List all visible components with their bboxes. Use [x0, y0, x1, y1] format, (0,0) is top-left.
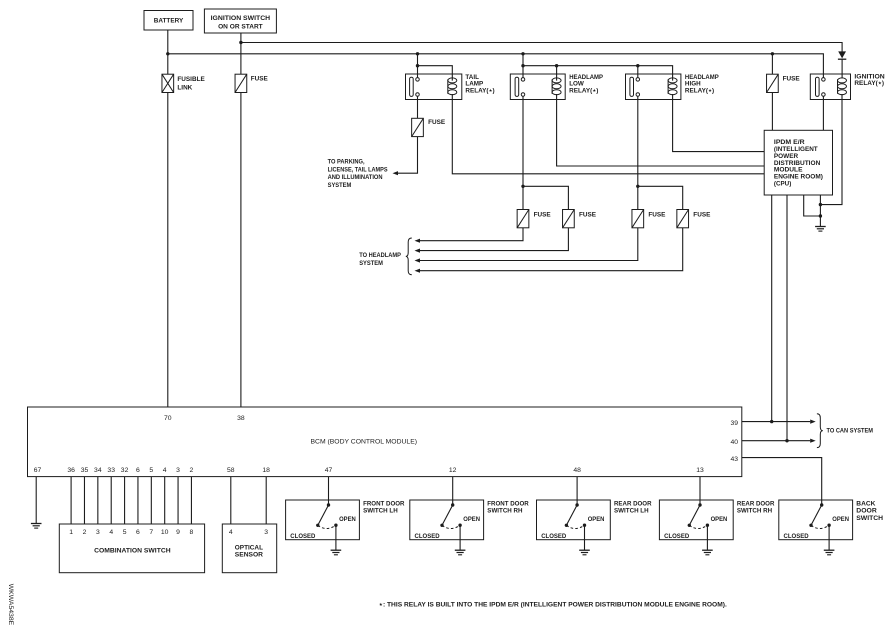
- svg-text:67: 67: [34, 467, 42, 474]
- svg-text:70: 70: [164, 415, 172, 422]
- fuse headlamp 1: [517, 210, 551, 228]
- BCM body control module box: [28, 407, 742, 477]
- pin 18 wire to optical sensor: [262, 467, 270, 536]
- wire tail relay coil feed: [418, 66, 453, 81]
- svg-text:36: 36: [67, 467, 75, 474]
- wire IPDM CAN L: [770, 195, 773, 423]
- door switch rear door switch LH: [537, 500, 652, 550]
- svg-text:BATTERY: BATTERY: [154, 18, 184, 25]
- wire ignition relay coil down: [820, 94, 842, 205]
- svg-text:9: 9: [176, 529, 180, 536]
- ground rear door switch LH: [579, 550, 590, 555]
- svg-text:38: 38: [237, 415, 245, 422]
- door switch back door switch: [779, 500, 884, 550]
- label to CAN system: [827, 428, 874, 435]
- svg-text:3: 3: [176, 467, 180, 474]
- svg-text:58: 58: [227, 467, 235, 474]
- svg-text:8: 8: [190, 529, 194, 536]
- svg-text:ON OR START: ON OR START: [218, 23, 263, 30]
- ground rear door switch RH: [702, 550, 713, 555]
- fuse (ignition feed): [235, 74, 268, 92]
- svg-text:CLOSED: CLOSED: [784, 533, 810, 540]
- svg-text:OPEN: OPEN: [832, 516, 849, 523]
- label to parking: [328, 159, 389, 189]
- label to headlamp system: [359, 252, 401, 267]
- svg-text:7: 7: [149, 529, 153, 536]
- svg-text:3: 3: [96, 529, 100, 536]
- wire ignition rail: [239, 41, 842, 52]
- svg-text:OPEN: OPEN: [463, 516, 480, 523]
- svg-text:IGNITION SWITCH: IGNITION SWITCH: [211, 15, 271, 22]
- wire headlamp high contact out: [636, 96, 639, 210]
- svg-text:SWITCH LH: SWITCH LH: [363, 508, 398, 515]
- svg-text:OPEN: OPEN: [711, 516, 728, 523]
- pin 36 wire to combination switch: [67, 467, 75, 536]
- svg-text:OPTICAL: OPTICAL: [235, 544, 263, 551]
- fuse headlamp 3: [632, 210, 666, 228]
- note relay built into IPDM: [379, 602, 727, 609]
- svg-text:FUSE: FUSE: [251, 76, 269, 83]
- svg-text:39: 39: [730, 420, 738, 427]
- svg-text:CLOSED: CLOSED: [541, 533, 567, 540]
- wire IPDM CAN H: [785, 195, 788, 442]
- brace CAN: [817, 414, 823, 448]
- pin 12 wire: [449, 467, 457, 505]
- relay tail lamp: [406, 74, 495, 100]
- svg-text:COMBINATION SWITCH: COMBINATION SWITCH: [94, 547, 171, 554]
- pin 40: [730, 439, 815, 447]
- svg-text:4: 4: [229, 529, 233, 536]
- wire fusible link to BCM pin 70: [167, 93, 169, 408]
- pin 5 wire to combination switch: [149, 467, 153, 536]
- wire ignition drop: [240, 33, 242, 74]
- ground front door switch RH: [455, 550, 466, 555]
- svg-text:5: 5: [149, 467, 153, 474]
- svg-text:2: 2: [190, 467, 194, 474]
- wire headlamp low contact out: [521, 96, 524, 210]
- svg-text:BCM (BODY CONTROL MODULE): BCM (BODY CONTROL MODULE): [311, 438, 418, 445]
- pin 3 wire to combination switch: [176, 467, 180, 536]
- svg-text:DOOR: DOOR: [856, 508, 877, 515]
- wire tail contact to fuse: [417, 96, 419, 118]
- diagram id WKWA5438E: [7, 584, 14, 626]
- svg-text:FUSE: FUSE: [693, 211, 711, 218]
- svg-text:LICENSE, TAIL LAMPS: LICENSE, TAIL LAMPS: [328, 166, 389, 173]
- wire battery rail: [166, 52, 823, 78]
- svg-text:FUSE: FUSE: [783, 76, 801, 83]
- svg-text:SENSOR: SENSOR: [235, 552, 264, 559]
- svg-text:33: 33: [107, 467, 115, 474]
- pin 35 wire to combination switch: [81, 467, 89, 536]
- pin 34 wire to combination switch: [94, 467, 102, 536]
- pin 33 wire to combination switch: [107, 467, 115, 536]
- wire fuse to BCM pin 38: [240, 93, 242, 408]
- svg-text:1: 1: [69, 529, 73, 536]
- fuse headlamp 2: [563, 210, 597, 228]
- svg-text:TO PARKING,: TO PARKING,: [328, 159, 365, 166]
- svg-text:FUSE: FUSE: [579, 211, 597, 218]
- svg-text:13: 13: [696, 467, 704, 474]
- svg-text:SWITCH: SWITCH: [856, 515, 883, 522]
- svg-text:CLOSED: CLOSED: [415, 533, 441, 540]
- node battery rail junctions: [416, 52, 774, 55]
- svg-text:(CPU): (CPU): [774, 180, 791, 187]
- svg-text:SWITCH LH: SWITCH LH: [614, 508, 649, 515]
- svg-text:FUSIBLE: FUSIBLE: [177, 76, 205, 83]
- svg-text:6: 6: [136, 467, 140, 474]
- combination switch box: [59, 524, 204, 573]
- svg-text:TO HEADLAMP: TO HEADLAMP: [359, 252, 401, 259]
- svg-text:CLOSED: CLOSED: [664, 533, 690, 540]
- svg-text:TO CAN SYSTEM: TO CAN SYSTEM: [827, 428, 874, 435]
- fusible link F/L: [162, 74, 206, 92]
- brace headlamp system: [406, 238, 412, 275]
- fuse (tail lamp out): [412, 118, 446, 136]
- relay ignition: [810, 73, 885, 99]
- door switch front door switch RH: [410, 500, 529, 550]
- svg-text:FRONT DOOR: FRONT DOOR: [487, 501, 529, 508]
- svg-text:LINK: LINK: [177, 85, 192, 92]
- wire headlamp arrow 3: [415, 228, 638, 263]
- ground BCM pin 67: [31, 524, 42, 529]
- svg-text:FRONT DOOR: FRONT DOOR: [363, 501, 405, 508]
- wire headlamp sub rail: [523, 64, 673, 81]
- svg-text:BACK: BACK: [856, 501, 876, 508]
- svg-text:SWITCH RH: SWITCH RH: [737, 508, 773, 515]
- wire branch to fuse2: [523, 186, 568, 209]
- IPDM E/R box: [764, 130, 832, 195]
- pin 48 wire: [573, 467, 581, 505]
- pin 47 wire: [325, 467, 333, 505]
- svg-text:OPEN: OPEN: [339, 516, 356, 523]
- svg-text:43: 43: [730, 456, 738, 463]
- svg-text:FUSE: FUSE: [648, 211, 666, 218]
- pin 2 wire to combination switch: [190, 467, 194, 536]
- wire headlamp high coil to IPDM: [673, 94, 765, 152]
- svg-text:RELAY(⋆): RELAY(⋆): [465, 87, 494, 94]
- svg-text:REAR DOOR: REAR DOOR: [737, 501, 775, 508]
- svg-text:5: 5: [123, 529, 127, 536]
- ground back door switch: [824, 550, 835, 555]
- svg-text:6: 6: [136, 529, 140, 536]
- wire battery drop: [167, 30, 169, 74]
- door switch rear door switch RH: [659, 500, 774, 550]
- ground front door switch LH: [331, 550, 342, 555]
- pin 4 wire to combination switch: [161, 467, 169, 536]
- svg-text:34: 34: [94, 467, 102, 474]
- pin 13 wire: [696, 467, 704, 505]
- pin 39: [730, 420, 815, 428]
- pin 43 to back door: [730, 456, 821, 505]
- svg-text:12: 12: [449, 467, 457, 474]
- svg-text:SYSTEM: SYSTEM: [359, 260, 383, 267]
- door switch front door switch LH: [286, 500, 405, 550]
- svg-text:SYSTEM: SYSTEM: [328, 182, 352, 189]
- wire IPDM ground a: [804, 195, 821, 216]
- svg-text:OPEN: OPEN: [588, 516, 605, 523]
- fuse (IPDM feed): [767, 74, 801, 92]
- svg-text:40: 40: [730, 439, 738, 446]
- wire headlamp low coil to IPDM: [557, 94, 765, 166]
- wire headlamp arrow 4: [415, 228, 683, 273]
- svg-text:47: 47: [325, 467, 333, 474]
- svg-text:18: 18: [262, 467, 270, 474]
- wire headlamp arrow 1: [415, 228, 524, 243]
- wire headlamp arrow 2: [415, 228, 569, 253]
- battery box: [144, 11, 193, 31]
- svg-text:32: 32: [121, 467, 129, 474]
- ignition switch box: [204, 9, 276, 33]
- pin 6 wire to combination switch: [136, 467, 140, 536]
- pin 38 label: [237, 415, 245, 422]
- optical sensor box: [222, 524, 276, 573]
- svg-text:3: 3: [264, 529, 268, 536]
- svg-text:⋆: THIS RELAY IS BUILT INTO TH: ⋆: THIS RELAY IS BUILT INTO THE IPDM E/R…: [379, 602, 727, 609]
- relay headlamp low: [510, 74, 603, 100]
- wire IPDM ground b: [819, 195, 822, 227]
- svg-text:4: 4: [109, 529, 113, 536]
- pin 70 label: [164, 415, 172, 422]
- svg-text:REAR DOOR: REAR DOOR: [614, 501, 652, 508]
- svg-text:CLOSED: CLOSED: [290, 533, 316, 540]
- svg-text:RELAY(⋆): RELAY(⋆): [854, 80, 884, 87]
- wire fuse to IPDM top: [771, 54, 773, 131]
- ground IPDM: [815, 227, 826, 232]
- diode D1: [838, 51, 846, 78]
- wire tail coil to IPDM: [452, 94, 764, 174]
- svg-text:RELAY(⋆): RELAY(⋆): [685, 87, 714, 94]
- svg-text:35: 35: [81, 467, 89, 474]
- wire headlamp low coil drop: [556, 66, 558, 81]
- svg-text:10: 10: [161, 529, 169, 536]
- pin 67 ground wire: [34, 467, 42, 523]
- svg-text:SWITCH RH: SWITCH RH: [487, 508, 523, 515]
- wire ignition relay contact to IPDM: [822, 96, 824, 130]
- svg-text:48: 48: [573, 467, 581, 474]
- svg-text:4: 4: [163, 467, 167, 474]
- pin 32 wire to combination switch: [121, 467, 129, 536]
- relay headlamp high: [626, 74, 719, 100]
- fuse headlamp 4: [677, 210, 711, 228]
- svg-text:FUSE: FUSE: [428, 119, 446, 126]
- wire headlamp low contact drop: [521, 54, 524, 78]
- wire to parking arrow: [393, 137, 418, 176]
- wire headlamp high contact drop: [637, 66, 639, 79]
- wire tail relay contact drop: [416, 54, 419, 78]
- svg-text:WKWA5438E: WKWA5438E: [7, 584, 14, 626]
- svg-text:AND ILLUMINATION: AND ILLUMINATION: [328, 174, 383, 181]
- wire branch to fuse4: [638, 186, 683, 209]
- svg-text:RELAY(⋆): RELAY(⋆): [569, 87, 598, 94]
- svg-text:FUSE: FUSE: [534, 211, 552, 218]
- svg-text:2: 2: [83, 529, 87, 536]
- pin 58 wire to optical sensor: [227, 467, 235, 536]
